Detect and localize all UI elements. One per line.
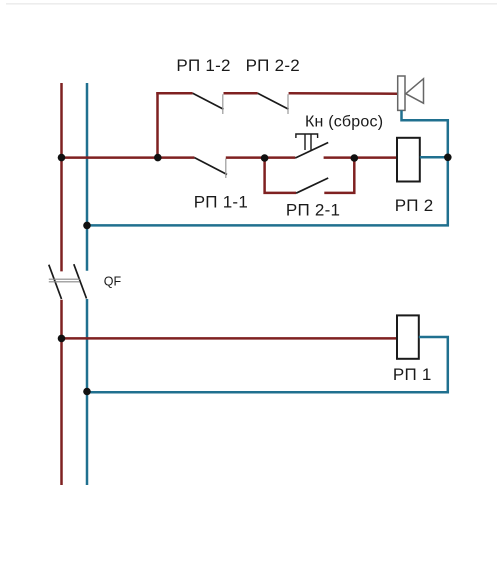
svg-text:QF: QF [104, 275, 122, 289]
svg-text:РП 1-2: РП 1-2 [176, 56, 230, 75]
svg-text:РП 2: РП 2 [395, 196, 434, 215]
svg-text:РП 2-2: РП 2-2 [246, 56, 300, 75]
svg-text:Кн (сброс): Кн (сброс) [305, 114, 383, 131]
svg-text:РП 2-1: РП 2-1 [286, 201, 340, 220]
svg-text:РП 1-1: РП 1-1 [194, 193, 248, 212]
svg-text:РП 1: РП 1 [393, 365, 432, 384]
